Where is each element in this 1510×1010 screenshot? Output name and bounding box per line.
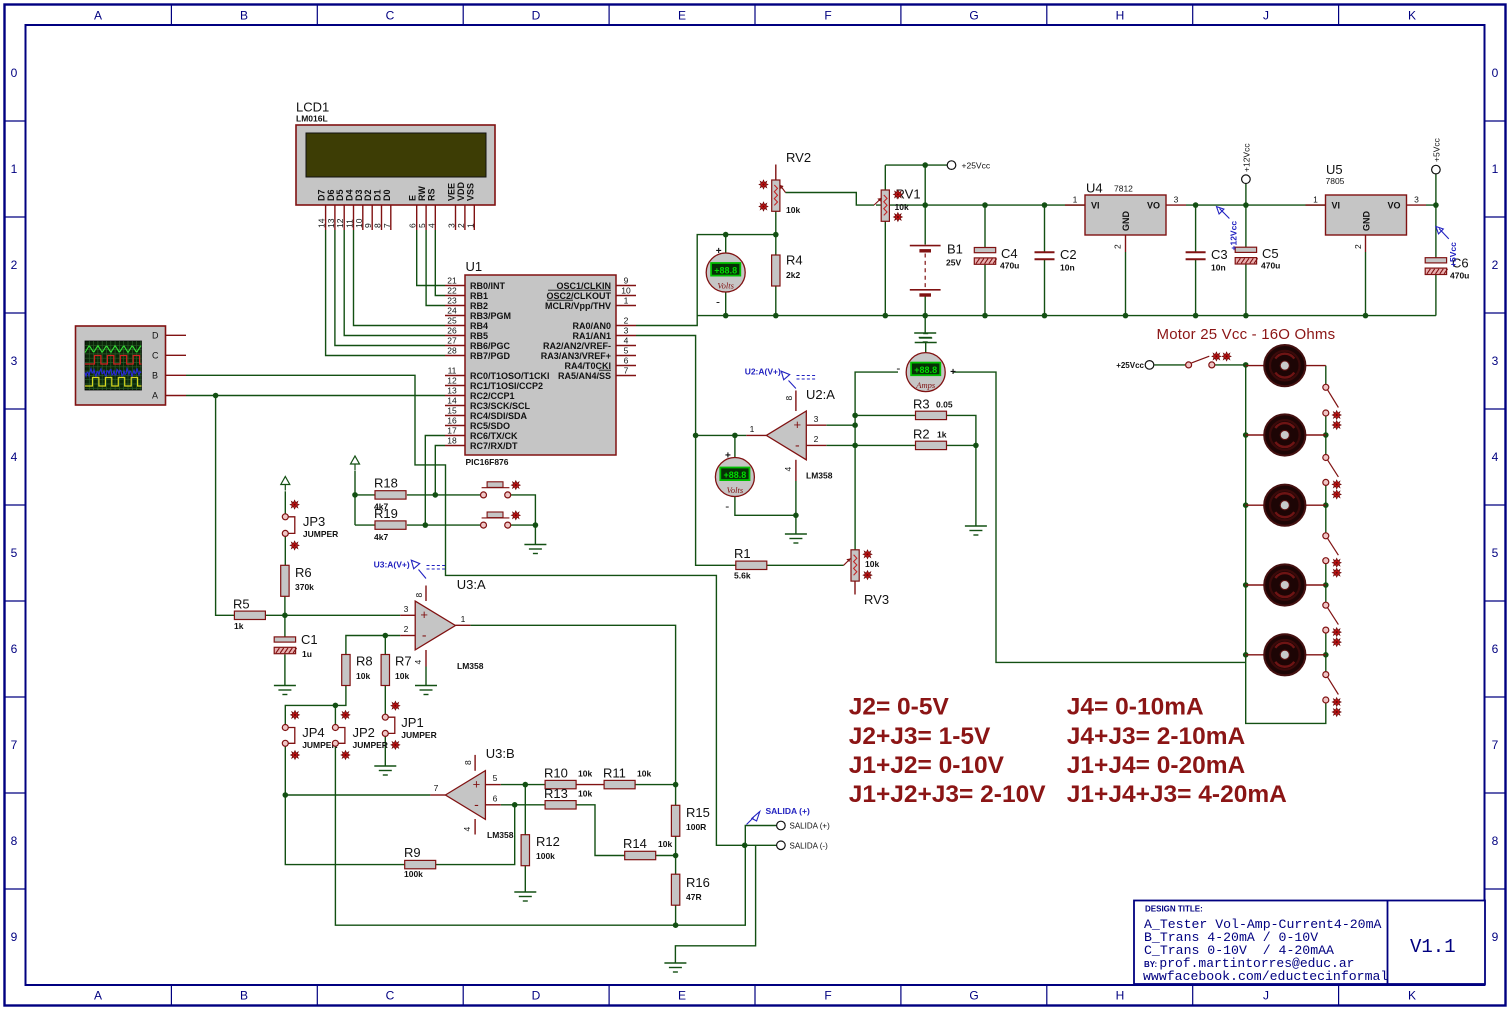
- annotation +5Vcc blue arrow: [1436, 227, 1449, 239]
- wire to C5: [1245, 205, 1247, 247]
- wire link to ground node: [511, 524, 536, 526]
- svg-text:10k: 10k: [637, 769, 651, 779]
- svg-text:3: 3: [814, 414, 819, 424]
- svg-text:C4: C4: [1001, 246, 1018, 261]
- ground U2:A pin4: [785, 534, 807, 543]
- svg-text:9: 9: [11, 930, 18, 944]
- terminal +12Vcc: [1242, 175, 1251, 184]
- svg-text:R19: R19: [374, 506, 398, 521]
- resistor R8 10k: [342, 654, 373, 686]
- wire C1 to ground: [284, 654, 286, 685]
- potentiometer RV1: [881, 190, 889, 221]
- svg-text:10k: 10k: [865, 559, 879, 569]
- svg-text:G: G: [969, 9, 978, 23]
- resistor R6 370k: [281, 565, 314, 596]
- ground B1: [914, 333, 936, 342]
- svg-text:10k: 10k: [895, 202, 909, 212]
- svg-text:R8: R8: [356, 654, 373, 669]
- svg-text:Motor 25 Vcc - 16O Ohms: Motor 25 Vcc - 16O Ohms: [1157, 326, 1336, 343]
- wire to C6: [1435, 205, 1437, 258]
- capacitor C6 470u (polarized): [1425, 256, 1469, 281]
- svg-text:470u: 470u: [1450, 271, 1469, 281]
- svg-text:7: 7: [11, 738, 18, 752]
- svg-text:R4: R4: [786, 253, 803, 268]
- svg-text:+: +: [950, 367, 956, 378]
- svg-text:1: 1: [750, 424, 755, 434]
- svg-text:OSC2/CLKOUT: OSC2/CLKOUT: [546, 291, 611, 301]
- motor M1: [1264, 345, 1305, 386]
- ammeter AMPS: [906, 353, 945, 392]
- svg-text:LM358: LM358: [806, 471, 833, 481]
- capacitor C4 470u (polarized): [974, 246, 1019, 271]
- svg-text:+: +: [420, 607, 428, 622]
- svg-text:11: 11: [448, 365, 457, 375]
- svg-text:JUMPER: JUMPER: [303, 529, 338, 539]
- svg-text:7: 7: [382, 223, 392, 228]
- wire U5 GND to bus: [1365, 252, 1367, 316]
- svg-text:+: +: [794, 417, 802, 432]
- ground R3/R2: [965, 526, 987, 535]
- svg-text:-: -: [716, 295, 720, 309]
- svg-text:10k: 10k: [658, 839, 672, 849]
- svg-text:14: 14: [447, 395, 457, 405]
- svg-text:-: -: [725, 499, 729, 513]
- wire to C3: [1195, 205, 1197, 252]
- resistor R19 4k7: [374, 506, 406, 542]
- svg-text:U5: U5: [1326, 162, 1343, 177]
- svg-text:2: 2: [814, 434, 819, 444]
- RV3 wiper arrow: [844, 559, 851, 566]
- svg-text:JUMPER: JUMPER: [353, 740, 388, 750]
- wire VM1 plus: [725, 235, 727, 253]
- svg-text:VO: VO: [1147, 201, 1160, 211]
- svg-text:10k: 10k: [356, 671, 370, 681]
- svg-text:R15: R15: [686, 805, 710, 820]
- svg-text:R9: R9: [404, 845, 421, 860]
- svg-text:3: 3: [1492, 354, 1499, 368]
- svg-text:J2= 0-5V: J2= 0-5V: [849, 694, 950, 721]
- RV1 wiper arrow: [874, 198, 882, 205]
- switch SW3 (motor chain): [1323, 533, 1341, 577]
- svg-text:4: 4: [624, 335, 629, 345]
- svg-text:J: J: [1263, 9, 1269, 23]
- RV2 wiper arrow: [780, 185, 786, 193]
- wire R9 to U3:B pin6: [436, 805, 515, 865]
- ground R19 link: [524, 545, 546, 554]
- wire AMPS minus down to RV3: [855, 372, 898, 550]
- svg-text:5: 5: [11, 546, 18, 560]
- terminal SALIDA (+): [777, 821, 786, 830]
- svg-text:1: 1: [1492, 162, 1499, 176]
- terminal +25Vcc (motor): [1145, 361, 1154, 370]
- svg-text:7805: 7805: [1326, 176, 1345, 186]
- svg-text:wwwfacebook.com/eductecinforma: wwwfacebook.com/eductecinformal: [1143, 969, 1388, 984]
- wire U4 GND to bus: [1125, 252, 1127, 316]
- oscilloscope component: [76, 326, 166, 405]
- svg-text:6: 6: [11, 642, 18, 656]
- svg-text:26: 26: [447, 325, 457, 335]
- svg-text:R2: R2: [913, 427, 930, 442]
- svg-text:RC5/SDO: RC5/SDO: [470, 421, 510, 431]
- svg-text:6: 6: [1492, 642, 1499, 656]
- svg-text:R1: R1: [734, 546, 751, 561]
- svg-text:J4+J3= 2-10mA: J4+J3= 2-10mA: [1067, 723, 1246, 750]
- wire pin6 to R13: [501, 804, 545, 806]
- wire power to JP3: [284, 491, 286, 514]
- resistor R5 1k: [233, 597, 265, 632]
- svg-text:10k: 10k: [578, 789, 592, 799]
- resistor R16 47R: [671, 874, 709, 905]
- svg-text:8: 8: [11, 834, 18, 848]
- svg-text:U3:A: U3:A: [457, 577, 486, 592]
- wire R7 top: [384, 636, 386, 655]
- wire 12V rail: [1186, 204, 1326, 206]
- svg-text:R13: R13: [544, 786, 568, 801]
- wire R14 right: [656, 855, 676, 857]
- svg-text:4: 4: [1492, 450, 1499, 464]
- svg-text:+: +: [473, 777, 481, 792]
- svg-text:7812: 7812: [1114, 184, 1133, 194]
- battery B1 25V: [910, 242, 963, 296]
- capacitor C1 1u (polarized): [274, 632, 317, 659]
- text jumper configuration table: [849, 694, 1287, 809]
- svg-text:Volts: Volts: [717, 281, 734, 291]
- svg-text:9: 9: [624, 275, 629, 285]
- wire R18 left: [355, 494, 375, 496]
- svg-text:1k: 1k: [937, 430, 947, 440]
- svg-text:10: 10: [621, 285, 631, 295]
- wire VM2 plus: [734, 435, 736, 458]
- svg-text:0: 0: [1492, 66, 1499, 80]
- svg-text:SALIDA (+): SALIDA (+): [790, 822, 831, 831]
- svg-text:28: 28: [447, 345, 457, 355]
- svg-text:LCD1: LCD1: [296, 100, 329, 115]
- svg-text:370k: 370k: [295, 582, 314, 592]
- jumper JP3: [282, 500, 338, 550]
- regulator U5 7805: [1313, 195, 1419, 250]
- svg-text:22: 22: [447, 285, 457, 295]
- svg-text:RC6/TX/CK: RC6/TX/CK: [470, 431, 518, 441]
- annotation SALIDA (+) blue: [747, 806, 810, 825]
- svg-text:+5Vcc: +5Vcc: [1432, 137, 1442, 162]
- resistor R11 10k: [603, 766, 651, 789]
- terminal +25Vcc (power rail): [947, 161, 956, 170]
- svg-text:C1: C1: [301, 632, 318, 647]
- wire SW3 to M4/SW4: [1325, 564, 1327, 602]
- svg-text:VI: VI: [1091, 201, 1100, 211]
- annotation U2:A(V+): [745, 367, 816, 389]
- svg-text:25V: 25V: [946, 258, 961, 268]
- resistor R18 4k7: [374, 476, 406, 512]
- svg-text:JP4: JP4: [302, 725, 324, 740]
- pin stubs maroon: [166, 165, 1427, 835]
- svg-text:B: B: [240, 9, 248, 23]
- svg-text:3: 3: [1174, 195, 1179, 205]
- svg-text:VI: VI: [1332, 201, 1341, 211]
- switch SW1 (motor chain): [1323, 384, 1341, 429]
- svg-text:4k7: 4k7: [374, 532, 388, 542]
- svg-text:1: 1: [465, 223, 475, 228]
- potentiometer RV2: [772, 180, 780, 211]
- wire C6 to bus: [1435, 274, 1437, 316]
- svg-text:B: B: [152, 371, 158, 381]
- svg-text:R6: R6: [295, 565, 312, 580]
- svg-text:+88.8: +88.8: [714, 265, 737, 275]
- svg-text:4: 4: [783, 467, 793, 472]
- motor M3: [1264, 485, 1305, 526]
- svg-text:3: 3: [11, 354, 18, 368]
- svg-text:SALIDA (+): SALIDA (+): [766, 806, 810, 816]
- resistor R2 1k: [913, 427, 947, 450]
- svg-text:RA2/AN2/VREF-: RA2/AN2/VREF-: [543, 341, 611, 351]
- svg-text:E: E: [678, 9, 686, 23]
- svg-text:LM358: LM358: [457, 661, 484, 671]
- wire U2:A output: [696, 434, 747, 436]
- svg-text:PIC16F876: PIC16F876: [466, 457, 509, 467]
- svg-text:1: 1: [1313, 195, 1318, 205]
- ground U3:A pin4: [425, 667, 427, 686]
- svg-text:RC7/RX/DT: RC7/RX/DT: [470, 441, 518, 451]
- wire pin5 node to R12: [524, 785, 526, 835]
- svg-text:10n: 10n: [1211, 263, 1226, 273]
- svg-text:7: 7: [1492, 738, 1499, 752]
- svg-text:3: 3: [1414, 195, 1419, 205]
- wire R3 right to ground: [945, 415, 976, 525]
- svg-text:25: 25: [447, 315, 457, 325]
- wire M1 to SW1: [1325, 366, 1327, 385]
- wire U2:A pin4 to ground: [795, 481, 797, 534]
- svg-text:K: K: [1408, 989, 1416, 1003]
- svg-text:U4: U4: [1086, 181, 1103, 196]
- svg-text:1: 1: [1073, 195, 1078, 205]
- svg-text:8: 8: [463, 760, 473, 765]
- wire link J3 to ground: [511, 495, 536, 544]
- potentiometer RV3: [851, 550, 859, 581]
- svg-text:2: 2: [404, 624, 409, 634]
- wire switch to motor bus: [1215, 364, 1246, 366]
- svg-text:RB3/PGM: RB3/PGM: [470, 311, 511, 321]
- voltmeter VM1: [706, 253, 745, 292]
- op-amp U3:B LM358: [445, 771, 485, 820]
- svg-text:H: H: [1116, 9, 1125, 23]
- jumper link at y=525.1: [481, 511, 521, 528]
- svg-text:U3:B: U3:B: [486, 746, 515, 761]
- svg-text:-: -: [422, 627, 427, 643]
- svg-text:7: 7: [624, 365, 629, 375]
- motor M5: [1264, 634, 1305, 675]
- svg-text:-: -: [795, 437, 800, 453]
- switch SW5 (motor chain): [1323, 672, 1341, 717]
- svg-text:4: 4: [11, 450, 18, 464]
- wire U1 RA0 up to meter rail: [636, 235, 776, 326]
- wire B1 to ground: [924, 296, 926, 333]
- resistor R7 10k: [381, 654, 412, 686]
- svg-text:F: F: [824, 989, 831, 1003]
- svg-text:RC3/SCK/SCL: RC3/SCK/SCL: [470, 401, 531, 411]
- svg-text:K: K: [1408, 9, 1416, 23]
- wire R19 left: [355, 524, 375, 526]
- svg-text:GND: GND: [1362, 211, 1372, 232]
- svg-text:F: F: [824, 9, 831, 23]
- svg-text:D: D: [532, 9, 541, 23]
- svg-text:2: 2: [1492, 258, 1499, 272]
- wire SW4 to M5/SW5: [1325, 633, 1327, 671]
- svg-text:C: C: [386, 9, 395, 23]
- svg-text:RA1/AN1: RA1/AN1: [572, 331, 611, 341]
- wire R13 to R14: [576, 805, 625, 856]
- svg-text:RV2: RV2: [786, 150, 811, 165]
- resistor R14 10k: [623, 836, 672, 860]
- terminal +5Vcc: [1432, 165, 1441, 174]
- wire SALIDA(-) to ground: [675, 845, 755, 962]
- resistor R15 100R: [671, 805, 709, 836]
- svg-text:B: B: [240, 989, 248, 1003]
- svg-text:J: J: [1263, 989, 1269, 1003]
- svg-text:2: 2: [1353, 244, 1363, 249]
- svg-text:R10: R10: [544, 766, 568, 781]
- wire R7 to JP1: [384, 686, 386, 714]
- svg-text:E: E: [678, 989, 686, 1003]
- wire to B1: [924, 205, 926, 245]
- svg-text:5: 5: [624, 345, 629, 355]
- svg-text:100k: 100k: [536, 851, 555, 861]
- wire RV2 wiper to RV1 wiper: [786, 193, 875, 206]
- svg-text:47R: 47R: [686, 892, 702, 902]
- svg-text:V1.1: V1.1: [1410, 936, 1456, 958]
- svg-text:DESIGN TITLE:: DESIGN TITLE:: [1145, 905, 1203, 914]
- wire U1 RA1 to R1: [636, 336, 736, 566]
- svg-text:5: 5: [1492, 546, 1499, 560]
- svg-text:JP1: JP1: [401, 715, 423, 730]
- svg-text:JP2: JP2: [353, 725, 375, 740]
- wire R16 to bus: [675, 904, 677, 925]
- svg-text:16: 16: [447, 415, 457, 425]
- svg-text:JP3: JP3: [303, 514, 325, 529]
- svg-text:RB4: RB4: [470, 321, 488, 331]
- svg-text:10n: 10n: [1060, 263, 1075, 273]
- svg-text:7: 7: [434, 783, 439, 793]
- svg-text:RB2: RB2: [470, 301, 488, 311]
- svg-text:G: G: [969, 989, 978, 1003]
- svg-text:4: 4: [462, 827, 472, 832]
- svg-text:5: 5: [493, 773, 498, 783]
- svg-text:6: 6: [493, 793, 498, 803]
- svg-text:-: -: [896, 361, 900, 375]
- svg-text:0.05: 0.05: [936, 400, 953, 410]
- wire R11 right: [635, 784, 675, 786]
- svg-text:A: A: [94, 9, 102, 23]
- LCD LCD1 LM016L: [296, 100, 495, 229]
- svg-text:4: 4: [426, 223, 436, 228]
- svg-text:1: 1: [461, 614, 466, 624]
- svg-text:RV3: RV3: [864, 592, 889, 607]
- svg-text:RC0/T1OSO/T1CKI: RC0/T1OSO/T1CKI: [470, 371, 550, 381]
- svg-text:18: 18: [447, 435, 457, 445]
- svg-text:RA4/T0CKI: RA4/T0CKI: [564, 361, 611, 371]
- wire C5 to bus: [1245, 263, 1247, 315]
- switch at motor +25Vcc: [1186, 352, 1231, 368]
- jumper JP2: [332, 711, 388, 760]
- terminal SALIDA (-): [777, 841, 786, 850]
- op-amp U2:A LM358: [766, 411, 806, 460]
- svg-text:1k: 1k: [234, 621, 244, 631]
- switch SW4 (motor chain): [1323, 602, 1341, 646]
- svg-text:10k: 10k: [395, 671, 409, 681]
- svg-text:4: 4: [413, 660, 423, 665]
- capacitor C3 10n: [1186, 247, 1228, 273]
- wire R15 to R16: [675, 835, 677, 874]
- svg-text:2: 2: [624, 315, 629, 325]
- svg-text:-: -: [474, 796, 479, 812]
- wire RV2 to R4: [775, 211, 777, 255]
- svg-text:RB1: RB1: [470, 291, 488, 301]
- svg-text:2k2: 2k2: [786, 270, 800, 280]
- svg-text:+12Vcc: +12Vcc: [1242, 143, 1252, 172]
- regulator U4 7812: [1073, 195, 1179, 250]
- svg-text:C2: C2: [1060, 247, 1077, 262]
- svg-text:VSS: VSS: [465, 183, 475, 201]
- wire scope-B to R18 net / SALIDA(-): [186, 375, 777, 845]
- svg-text:U3:A(V+): U3:A(V+): [374, 560, 410, 570]
- svg-text:R11: R11: [603, 766, 626, 781]
- svg-text:SALIDA (-): SALIDA (-): [790, 842, 829, 851]
- svg-text:13: 13: [447, 385, 457, 395]
- svg-text:J1+J4= 0-20mA: J1+J4= 0-20mA: [1067, 752, 1246, 779]
- wire C4 to bus: [984, 265, 986, 316]
- svg-text:C5: C5: [1262, 246, 1279, 261]
- wire U1 pin18 down: [435, 446, 445, 495]
- wire R18 right to link J3: [407, 494, 480, 496]
- jumper JP4: [282, 711, 337, 760]
- svg-text:+88.8: +88.8: [724, 470, 747, 480]
- svg-text:C3: C3: [1211, 247, 1228, 262]
- svg-text:+5Vcc: +5Vcc: [1448, 242, 1458, 267]
- svg-text:JUMPER: JUMPER: [401, 730, 436, 740]
- wire U5 VO to +5Vcc: [1426, 174, 1436, 205]
- motor M4: [1264, 564, 1305, 605]
- wire R4 to bus: [775, 286, 777, 316]
- svg-text:U2:A: U2:A: [806, 387, 835, 402]
- wire RV1 top to +25Vcc: [885, 164, 947, 166]
- jumper link at y=494.9: [481, 481, 521, 498]
- wire R1 to RV3: [766, 564, 844, 566]
- wire U1 pin17 down: [425, 436, 445, 526]
- svg-text:A: A: [94, 989, 102, 1003]
- power arrow above R18: [351, 456, 360, 470]
- svg-text:24: 24: [447, 305, 457, 315]
- resistor R13 10k: [544, 786, 592, 809]
- svg-text:R18: R18: [374, 476, 398, 491]
- svg-text:R16: R16: [686, 875, 710, 890]
- svg-text:9: 9: [1492, 930, 1499, 944]
- resistor R4 2k2: [772, 253, 803, 287]
- svg-text:RA0/AN0: RA0/AN0: [572, 321, 611, 331]
- svg-text:RB0/INT: RB0/INT: [470, 281, 506, 291]
- svg-text:6: 6: [624, 355, 629, 365]
- switch SW2 (motor chain): [1323, 455, 1341, 499]
- svg-text:H: H: [1116, 989, 1125, 1003]
- wire +25Vcc to switch: [1154, 364, 1185, 366]
- wire power arrow to R18/R19: [354, 471, 356, 526]
- svg-text:C: C: [386, 989, 395, 1003]
- svg-text:100R: 100R: [686, 822, 706, 832]
- svg-text:R5: R5: [233, 597, 250, 612]
- svg-text:Volts: Volts: [727, 485, 744, 495]
- voltmeter VM2: [715, 458, 754, 497]
- svg-text:LM016L: LM016L: [296, 114, 328, 124]
- wires LCD data/control to U1: [326, 230, 445, 356]
- wire R8 top to U3:A pin2: [346, 636, 400, 655]
